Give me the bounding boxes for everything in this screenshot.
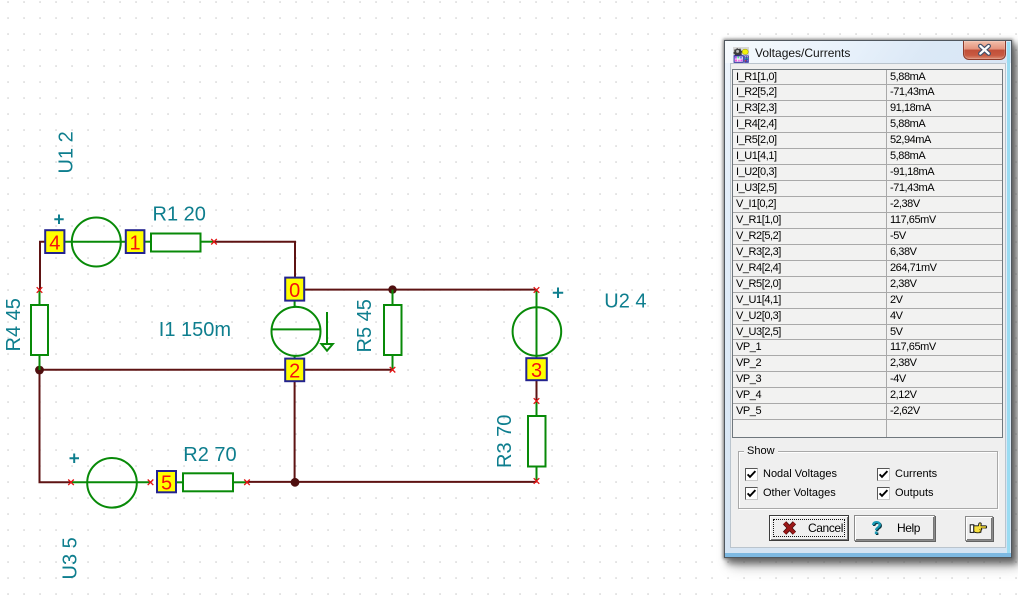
wire bottom row — [247, 481, 537, 483]
wire node4 left corner — [40, 242, 46, 290]
Voltages/Currents dialog — [724, 40, 1012, 558]
svg-text:2: 2 — [289, 361, 300, 383]
pin cross below R3 — [534, 478, 540, 484]
pin cross above R4 — [37, 287, 43, 293]
svg-text:0: 0 — [289, 280, 300, 302]
plus U3 — [70, 454, 80, 464]
voltage source U1 — [65, 218, 126, 267]
voltage source U3 — [71, 458, 151, 508]
pin cross below R5 — [390, 367, 396, 373]
svg-text:3: 3 — [531, 360, 542, 382]
pin cross right of U3 — [148, 480, 154, 486]
svg-text:R1 20: R1 20 — [153, 204, 206, 226]
wire node3 to R3 — [536, 380, 538, 401]
wire row3 left segment — [40, 369, 286, 371]
svg-text:1: 1 — [130, 232, 141, 254]
plus U1 — [54, 215, 63, 225]
wire left vertical to U3 row — [40, 370, 72, 482]
pin cross top of U2 — [534, 287, 540, 293]
voltage source U2 — [513, 290, 562, 358]
pin cross right of R1 — [211, 239, 217, 245]
resistor R1 — [145, 234, 215, 252]
wire R1 to node0 — [214, 242, 295, 278]
junction bottom row — [291, 478, 300, 487]
svg-text:4: 4 — [49, 232, 60, 254]
svg-text:I1 150m: I1 150m — [159, 319, 231, 341]
svg-text:U3 5: U3 5 — [60, 537, 82, 579]
wire node2 down — [294, 381, 296, 482]
svg-text:U2 4: U2 4 — [604, 290, 646, 312]
plus U2 — [553, 288, 563, 299]
svg-text:5: 5 — [161, 472, 172, 494]
current source I1 — [272, 301, 333, 359]
pin cross above R3 — [534, 398, 540, 404]
svg-text:R4 45: R4 45 — [3, 298, 25, 351]
node 3 — [526, 358, 547, 382]
pin cross left of U3 — [68, 480, 74, 486]
pin cross right of R2 — [244, 480, 250, 486]
svg-text:U1 2: U1 2 — [56, 131, 78, 173]
wire row2 node0 to U2 — [304, 289, 537, 291]
node 2 — [285, 359, 304, 383]
junction below R4 — [35, 366, 44, 375]
svg-text:R3 70: R3 70 — [494, 415, 516, 468]
node 0 — [285, 278, 304, 302]
junction row2 R5 — [388, 285, 396, 293]
resistor R3 — [528, 401, 546, 481]
node 5 — [157, 471, 176, 494]
resistor R5 — [384, 290, 402, 370]
wire row3 right segment — [304, 369, 393, 371]
node 4 — [45, 230, 64, 254]
node 1 — [126, 230, 145, 254]
svg-text:R5 45: R5 45 — [354, 299, 376, 352]
resistor R2 — [176, 473, 247, 491]
resistor R4 — [31, 290, 48, 370]
svg-text:R2 70: R2 70 — [183, 444, 236, 466]
